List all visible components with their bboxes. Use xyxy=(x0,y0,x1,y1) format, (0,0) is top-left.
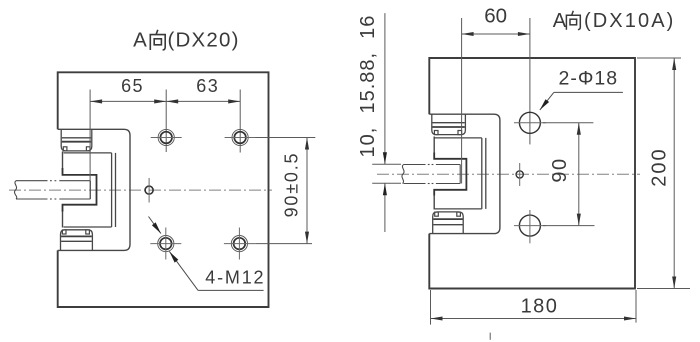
svg-text:200: 200 xyxy=(649,147,671,186)
center mark DX20 xyxy=(145,186,153,194)
dim 90±0.5 xyxy=(306,138,308,244)
bottom rail DX20 xyxy=(61,230,93,250)
svg-text:180: 180 xyxy=(521,296,559,318)
centerline horizontal right view xyxy=(377,173,640,175)
hole top Φ18 xyxy=(514,112,546,133)
dim line 65/63 xyxy=(90,100,240,102)
dim 180 xyxy=(430,290,432,325)
svg-text:4-M12: 4-M12 xyxy=(205,268,265,288)
M12 hole top-right xyxy=(225,129,256,145)
extension line x=166.2 xyxy=(165,90,167,153)
leader 2-Φ18 xyxy=(540,92,554,110)
small mark below right view xyxy=(489,333,491,340)
svg-text:A: A xyxy=(553,10,567,32)
second arrow at hole xyxy=(149,217,161,234)
M12 hole bottom-right xyxy=(224,228,256,260)
bracket outer DX20 xyxy=(58,129,130,250)
extension line x=90 DX20 xyxy=(89,90,91,200)
centerline horizontal left view xyxy=(9,189,272,191)
hole bottom Φ18 xyxy=(514,210,546,243)
svg-text:90: 90 xyxy=(549,157,571,182)
dim 60 xyxy=(461,18,463,184)
svg-text:A: A xyxy=(133,29,147,52)
notch (sectioned jaw) DX10A xyxy=(434,153,466,196)
M12 hole top-left xyxy=(151,129,182,145)
dim 90 right view xyxy=(543,122,593,124)
svg-text:(DX10A): (DX10A) xyxy=(584,10,675,32)
top rail DX20 xyxy=(61,130,92,151)
svg-text:60: 60 xyxy=(484,4,507,27)
bracket outer DX10A xyxy=(429,114,500,233)
plate DX10A outline xyxy=(429,58,635,289)
svg-text:(DX20): (DX20) xyxy=(168,29,240,52)
shaft DX10A xyxy=(402,165,404,184)
svg-text:10, 15.88, 16: 10, 15.88, 16 xyxy=(357,15,379,158)
top rail DX10A xyxy=(432,114,466,134)
center mark DX10A xyxy=(516,171,523,178)
shaft DX20 xyxy=(14,181,16,199)
svg-text:63: 63 xyxy=(196,76,219,96)
svg-text:90±0.5: 90±0.5 xyxy=(282,152,302,218)
extension line x=240.2 xyxy=(239,90,241,153)
bottom rail DX10A xyxy=(433,212,464,233)
dim 10/15.88/16 leader xyxy=(372,163,401,165)
dim 200 xyxy=(637,57,681,59)
leader 4-M12 xyxy=(169,252,198,291)
notch (sectioned jaw) DX20 xyxy=(63,168,97,212)
svg-text:65: 65 xyxy=(121,76,144,96)
plate DX20 outline xyxy=(58,72,269,307)
inner recess DX10A xyxy=(435,137,482,139)
M12 hole bottom-left xyxy=(150,228,181,260)
svg-text:2-Φ18: 2-Φ18 xyxy=(559,68,619,90)
inner recess DX20 xyxy=(64,152,112,154)
extension lines right side DX20 xyxy=(256,137,316,139)
